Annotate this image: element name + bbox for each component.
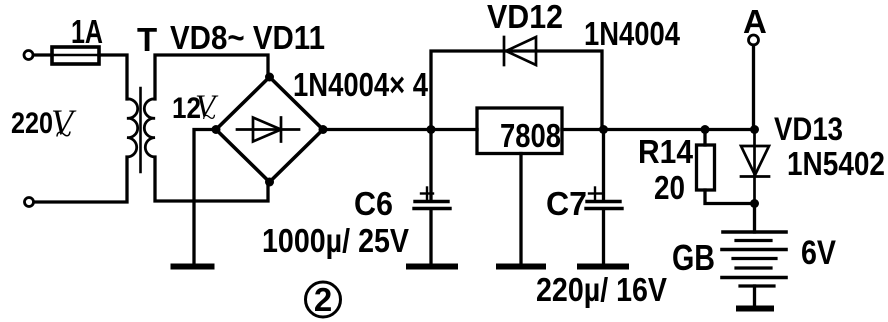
svg-text:C7: C7 <box>546 185 587 222</box>
wire secondary bottom to bridge bottom node <box>155 157 268 201</box>
wire secondary top to bridge top node <box>155 55 268 99</box>
svg-text:GB: GB <box>672 237 715 278</box>
svg-text:VD13: VD13 <box>774 111 843 147</box>
wire bridge left node to ground <box>194 130 216 263</box>
node dot bridge top <box>265 73 274 82</box>
diode VD12 <box>504 37 536 65</box>
capacitor C6 stem bottom <box>429 210 432 262</box>
wire main positive rail (bridge to 7808 in) <box>323 128 477 131</box>
node dot rail at A/VD13 <box>750 125 759 134</box>
wire fuse to transformer primary top <box>99 55 127 99</box>
node dot bridge right <box>319 125 328 134</box>
capacitor C7 polarity + <box>589 188 601 200</box>
svg-text:1N5402: 1N5402 <box>787 145 885 182</box>
node dot battery top <box>750 199 759 208</box>
node dot rail at C6 <box>427 125 436 134</box>
wire terminal to transformer primary bottom <box>34 157 127 202</box>
ground (7808) <box>499 264 543 270</box>
terminal bottom-left (220V input, neutral) <box>25 198 34 207</box>
ground (C7) <box>580 264 626 270</box>
svg-text:6V: 6V <box>801 234 836 272</box>
diode VD13 <box>741 130 769 204</box>
transformer T secondary winding <box>144 99 155 157</box>
svg-text:1000µ/ 25V: 1000µ/ 25V <box>262 222 409 259</box>
node dot bridge bottom <box>265 178 274 187</box>
wire terminal to fuse <box>34 53 53 56</box>
capacitor C6 plates <box>415 200 448 203</box>
svg-text:1N4004× 4: 1N4004× 4 <box>293 66 429 103</box>
svg-text:1A: 1A <box>71 13 103 50</box>
node dot bridge left <box>212 125 221 134</box>
transformer T primary winding <box>127 99 138 157</box>
svg-text:7808: 7808 <box>500 117 561 154</box>
ground (bridge negative) <box>174 264 212 270</box>
transformer core <box>139 88 142 172</box>
battery GB plates <box>722 232 786 286</box>
svg-text:R14: R14 <box>638 133 694 170</box>
svg-text:~: ~ <box>55 118 71 151</box>
svg-text:A: A <box>743 3 767 40</box>
svg-text:T: T <box>137 21 157 58</box>
bridge rectifier VD8~VD11 diamond <box>216 77 323 182</box>
svg-text:1N4004: 1N4004 <box>584 15 681 52</box>
terminal top-left (220V input, live) <box>24 51 33 60</box>
capacitor C6 polarity + <box>421 188 433 200</box>
ground (battery) <box>739 306 771 312</box>
regulator U 7808 box <box>477 108 562 154</box>
capacitor C7 stem bottom <box>602 210 605 262</box>
resistor R14 <box>697 130 755 204</box>
capacitor C6 stem top <box>429 130 432 201</box>
ground (C6) <box>409 264 455 270</box>
svg-text:2: 2 <box>314 281 332 318</box>
wire VD12 branch up-over-down <box>431 51 602 130</box>
svg-text:220µ/ 16V: 220µ/ 16V <box>536 271 667 308</box>
capacitor C7 stem top <box>602 130 605 201</box>
bridge inner diode symbol <box>237 118 299 142</box>
wire A to rail <box>752 45 755 130</box>
wire battery to ground <box>753 286 756 306</box>
fuse FU 1A <box>34 47 128 64</box>
wire main positive rail (7808 out to A column) <box>562 128 755 131</box>
capacitor C7 plates <box>587 200 620 203</box>
terminal A circle <box>749 35 759 45</box>
node dot rail at C7 <box>599 125 608 134</box>
node dot rail at R14 <box>701 125 710 134</box>
svg-text:220: 220 <box>11 107 53 140</box>
wire node to battery <box>753 204 756 233</box>
wire 7808 ground pin <box>519 154 522 263</box>
svg-text:VD8~ VD11: VD8~ VD11 <box>170 19 325 56</box>
svg-text:VD12: VD12 <box>487 0 563 35</box>
label 220V <box>11 102 77 151</box>
svg-text:C6: C6 <box>354 185 393 222</box>
label 12V <box>172 89 219 131</box>
figure number circled 2 <box>306 281 341 318</box>
svg-text:20: 20 <box>654 169 685 206</box>
